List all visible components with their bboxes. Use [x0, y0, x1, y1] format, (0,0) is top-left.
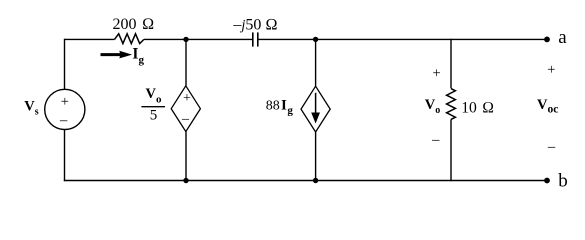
- voltage source Vs circle: [45, 89, 85, 129]
- svg-text:a: a: [558, 27, 567, 48]
- svg-text:+: +: [547, 62, 555, 78]
- svg-text:88Ig: 88Ig: [266, 97, 294, 116]
- label a: [558, 27, 567, 48]
- terminal b dot: [544, 178, 550, 184]
- svg-text:–: –: [547, 139, 556, 155]
- svg-text:Ig: Ig: [132, 46, 144, 66]
- label 88 Ig: [266, 97, 294, 116]
- label 10 ohm: [461, 99, 494, 116]
- dependent current source 88Ig diamond: [301, 86, 330, 132]
- current arrow Ig: [101, 51, 133, 59]
- label Ig: [132, 46, 144, 66]
- wire top between resistor and capacitor: [144, 38, 252, 40]
- plus sign inside diamond1: [183, 91, 191, 106]
- minus sign below Vo: [431, 132, 440, 148]
- node dot top at x=186: [183, 37, 188, 42]
- svg-text:Vs: Vs: [24, 99, 38, 118]
- wire branch1 upper: [185, 39, 187, 85]
- label Vo over 5 fraction: [141, 86, 165, 124]
- wire branch3 upper: [450, 39, 452, 89]
- plus sign inside Vs: [61, 94, 69, 110]
- dependent voltage source Vo/5 diamond: [171, 86, 200, 132]
- minus sign Voc: [547, 139, 556, 155]
- node dot bottom at x=186: [183, 178, 188, 183]
- svg-text:–: –: [431, 132, 440, 148]
- svg-text:Vo: Vo: [146, 86, 162, 106]
- label b: [558, 171, 568, 192]
- capacitor C -j50ohm plates: [253, 32, 258, 46]
- wire top left segment: [65, 38, 115, 40]
- wire left vertical upper: [64, 39, 66, 90]
- svg-text:+: +: [183, 91, 191, 106]
- terminal a dot: [544, 37, 550, 43]
- minus sign inside Vs: [59, 113, 68, 129]
- wire branch3 lower: [450, 119, 452, 181]
- plus sign above Vo: [433, 65, 441, 81]
- svg-text:Voc: Voc: [537, 97, 558, 116]
- label -j50 ohm: [232, 16, 277, 33]
- wire branch1 lower: [185, 132, 187, 181]
- wire bottom: [64, 180, 547, 182]
- svg-text:+: +: [433, 65, 441, 81]
- label Vs: [24, 99, 38, 118]
- arrow inside current source: [311, 93, 320, 124]
- svg-text:5: 5: [150, 108, 158, 124]
- svg-text:–: –: [181, 112, 190, 127]
- wire top right of capacitor: [258, 38, 547, 40]
- wire left vertical lower: [64, 130, 66, 182]
- plus sign Voc: [547, 62, 555, 78]
- resistor R 200ohm zigzag: [115, 34, 144, 44]
- minus sign inside diamond1: [181, 112, 190, 127]
- svg-text:+: +: [61, 94, 69, 110]
- wire branch2 lower: [315, 132, 317, 181]
- node dot bottom at x=315.6: [313, 178, 318, 183]
- svg-text:10 Ω: 10 Ω: [461, 99, 494, 116]
- resistor 10ohm vertical zigzag: [447, 89, 456, 120]
- wire branch2 upper: [315, 39, 317, 86]
- svg-text:200 Ω: 200 Ω: [113, 16, 155, 33]
- svg-text:–j50 Ω: –j50 Ω: [232, 16, 277, 33]
- label Voc: [537, 97, 558, 116]
- label 200 ohm: [113, 16, 155, 33]
- svg-text:–: –: [59, 113, 68, 129]
- svg-text:b: b: [558, 171, 568, 192]
- node dot top at x=315.6: [313, 37, 318, 42]
- label Vo resistor: [425, 97, 440, 116]
- svg-text:Vo: Vo: [425, 97, 440, 116]
